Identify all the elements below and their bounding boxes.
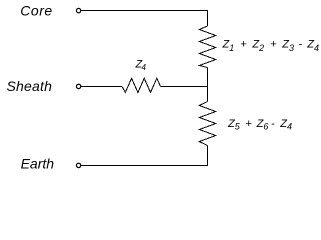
svg-text:Sheath: Sheath [7,78,53,94]
svg-text:Earth: Earth [21,156,55,172]
svg-text:Z4: Z4 [135,59,147,73]
svg-text:Z1+Z2+Z3-Z4: Z1+Z2+Z3-Z4 [222,39,320,53]
svg-text:Core: Core [20,3,52,19]
svg-text:Z5+Z6-Z4: Z5+Z6-Z4 [227,118,292,132]
